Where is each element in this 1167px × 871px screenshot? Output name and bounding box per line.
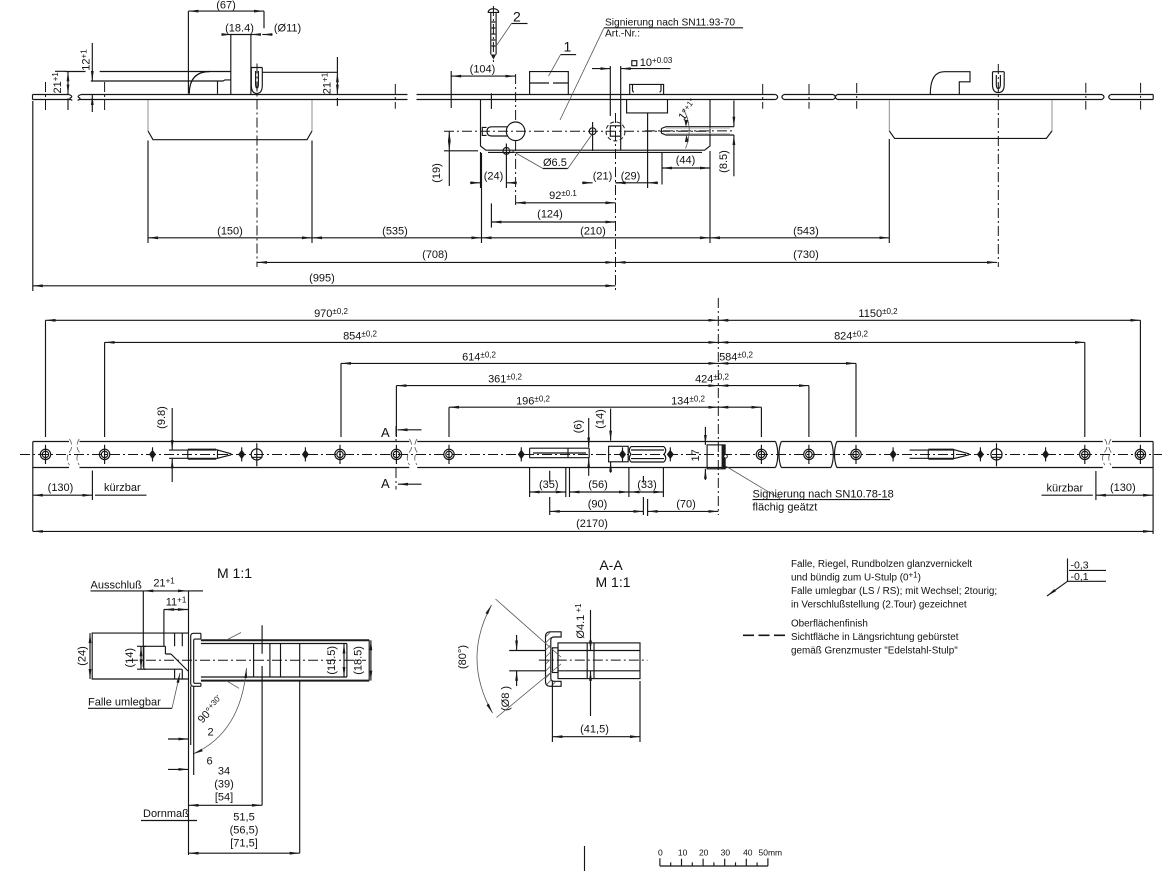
latch slot lines — [144, 646, 182, 669]
latch front view (right) body — [928, 450, 953, 459]
svg-text:(130): (130) — [1110, 482, 1136, 494]
round bolt front (left, circle with cross) — [251, 449, 262, 460]
dimension (8.5) — [733, 101, 735, 127]
round bolt pin (top view right) — [993, 72, 1005, 93]
svg-text:(14): (14) — [124, 648, 136, 668]
svg-text:(18.4): (18.4) — [225, 23, 254, 35]
dimension (90) — [550, 510, 644, 512]
dimension (41.5) — [552, 736, 640, 738]
svg-text:-0,1: -0,1 — [1071, 571, 1089, 583]
svg-text:Art.-Nr.:: Art.-Nr.: — [605, 29, 640, 40]
dimension (104) — [451, 75, 515, 77]
dimension (6) — [588, 418, 590, 447]
dimension 6 — [168, 768, 189, 770]
keep plate — [609, 446, 629, 462]
svg-text:kürzbar: kürzbar — [1047, 483, 1084, 495]
svg-text:824±0,2: 824±0,2 — [834, 330, 868, 343]
leader Signierung SN10.78 — [726, 466, 781, 499]
dimension (24) — [89, 633, 91, 679]
left keep housing (top view) — [148, 100, 312, 131]
svg-text:Falle umlegbar (LS / RS); mit: Falle umlegbar (LS / RS); mit Wechsel; 2… — [791, 586, 997, 597]
dimension (24) — [470, 182, 481, 184]
dimension (130) left — [33, 494, 93, 496]
svg-text:[71,5]: [71,5] — [230, 838, 258, 850]
svg-text:(15.5): (15.5) — [326, 646, 338, 675]
svg-text:(80°): (80°) — [457, 645, 469, 669]
svg-text:92±0.1: 92±0.1 — [549, 189, 577, 202]
svg-text:Falle umlegbar: Falle umlegbar — [88, 697, 161, 709]
svg-text:(543): (543) — [793, 225, 819, 237]
svg-text:196±0,2: 196±0,2 — [516, 394, 550, 407]
svg-text:(6): (6) — [573, 420, 585, 433]
svg-text:Sichtfläche in Längsrichtung g: Sichtfläche in Längsrichtung gebürstet — [791, 632, 959, 643]
latch guide verticals — [175, 633, 183, 679]
screw item 2 — [488, 9, 499, 55]
latch front view (left) tail — [169, 450, 188, 458]
right pin centerline, extends to (730) dim — [997, 64, 999, 267]
round bolt front (right, circle with cross) — [991, 449, 1002, 460]
dimension (2170) — [33, 530, 1153, 532]
svg-text:(35): (35) — [539, 479, 559, 491]
follower circle (dashed) — [606, 122, 625, 141]
svg-text:(995): (995) — [309, 272, 335, 284]
dimension 92+-0.1 — [516, 202, 616, 204]
svg-text:(124): (124) — [537, 209, 563, 221]
rivet bolts (filled diamonds) — [149, 447, 1049, 461]
svg-text:(67): (67) — [216, 0, 236, 12]
dimension (995) — [33, 285, 616, 287]
svg-text:21+1: 21+1 — [153, 577, 175, 590]
svg-text:(730): (730) — [793, 249, 819, 261]
svg-text:Dornmaß: Dornmaß — [143, 808, 189, 820]
dimension (14) — [610, 409, 612, 441]
svg-text:21+1: 21+1 — [51, 72, 64, 94]
svg-text:Ausschluß: Ausschluß — [91, 580, 143, 592]
bar top line right of pin — [262, 71, 337, 73]
svg-text:A: A — [381, 425, 390, 440]
dimension (9.8) — [171, 408, 173, 450]
surface finish symbol — [1068, 559, 1107, 582]
ladder extension lines to holes — [46, 320, 1141, 437]
bolt shaft lines Ø8 — [558, 651, 640, 671]
dimension (18.4) — [222, 34, 232, 36]
dimension (56) — [570, 491, 629, 493]
dimension (67) — [188, 10, 264, 12]
round bolt pin inner slot (plan left) — [256, 71, 259, 88]
dimension 614 — [341, 362, 718, 364]
svg-text:(Ø11): (Ø11) — [274, 23, 301, 35]
svg-text:(24): (24) — [484, 171, 504, 183]
svg-text:(44): (44) — [676, 155, 696, 167]
svg-text:(33): (33) — [637, 479, 657, 491]
svg-text:90°+30': 90°+30' — [195, 693, 226, 726]
corner marks — [227, 633, 242, 689]
dimension (44) — [662, 167, 710, 169]
screw holes (front view, double ring) — [40, 445, 1145, 464]
dimension (730) — [616, 261, 998, 263]
dimension (14) — [140, 646, 142, 669]
drive rod connector plates — [530, 448, 590, 458]
svg-text:(150): (150) — [217, 225, 243, 237]
striker component (dark right edge) — [707, 445, 725, 469]
dimension 21+1 (right) — [336, 72, 338, 94]
svg-text:30: 30 — [721, 848, 731, 858]
cylinder case edge view — [201, 640, 369, 680]
svg-text:(39): (39) — [214, 779, 234, 791]
svg-text:10: 10 — [678, 848, 688, 858]
dimension (150) — [148, 237, 312, 239]
kuerzbar break squiggles (top view) — [69, 95, 80, 101]
svg-text:(70): (70) — [676, 499, 696, 511]
svg-text:51,5: 51,5 — [233, 812, 254, 824]
dimension 1150 — [718, 319, 1140, 321]
svg-text:(21): (21) — [593, 171, 613, 183]
svg-text:584±0,2: 584±0,2 — [719, 351, 753, 364]
svg-text:(14): (14) — [595, 409, 607, 429]
chain dim extension lines row1 — [148, 139, 889, 243]
keyhole bulb — [506, 122, 525, 141]
svg-text:(41,5): (41,5) — [580, 724, 609, 736]
U-Stulp section bracket — [546, 632, 562, 687]
hole centerline ticks on strip (top view) — [46, 82, 1141, 110]
dimension (124) — [491, 221, 615, 223]
svg-text:[54]: [54] — [215, 792, 233, 804]
section mark A-A — [395, 426, 397, 490]
pin centerline (plan left), extends to (708) dim — [256, 64, 258, 268]
round bolt pin Ø11 (plan left) — [251, 68, 262, 94]
svg-text:2: 2 — [513, 9, 521, 25]
svg-text:(56,5): (56,5) — [230, 825, 259, 837]
latch front view (left) body — [188, 450, 216, 459]
dimension 21+1 (Ausschluss) — [143, 590, 188, 592]
centerline detail — [128, 659, 366, 661]
latch bevel arc (plan left) — [189, 72, 210, 94]
svg-text:A-A: A-A — [599, 557, 623, 573]
svg-text:40: 40 — [743, 848, 753, 858]
keyhole centerline vertical — [515, 74, 517, 208]
dimension 424 — [718, 385, 809, 387]
svg-text:Falle, Riegel, Rundbolzen glan: Falle, Riegel, Rundbolzen glanzvernickel… — [791, 559, 972, 570]
dimension (535) — [312, 237, 482, 239]
lock case bottom second line — [488, 151, 702, 153]
case centerline horizontal — [444, 130, 707, 132]
break caps (top view) — [776, 95, 1111, 100]
latch lever plan view (left) bottom edge — [91, 80, 231, 81]
svg-text:Ø4.1 +1: Ø4.1 +1 — [574, 603, 587, 639]
svg-text:in Verschlußstellung (2.Tour): in Verschlußstellung (2.Tour) gezeichnet — [791, 600, 967, 611]
dimension (210) — [482, 237, 711, 239]
faceplate strip (top view) bottom line — [33, 99, 1154, 101]
80 degree arc — [477, 605, 493, 713]
break cut marks at section (front view) — [407, 439, 417, 465]
latch drop edge (plan left) — [217, 81, 219, 94]
dimension (130) right — [1096, 494, 1153, 496]
svg-text:34: 34 — [218, 766, 230, 778]
svg-text:21+1: 21+1 — [321, 72, 334, 94]
dimension 134 — [718, 406, 761, 408]
datum centerline (front view ladder) — [717, 298, 719, 515]
scale ruler — [660, 865, 768, 867]
cover block item 1 on strip — [530, 72, 569, 95]
svg-text:(90): (90) — [588, 499, 608, 511]
kuerzbar cut marks (front right) — [1103, 439, 1111, 465]
dimension (33) — [630, 491, 664, 493]
svg-text:(2170): (2170) — [576, 518, 608, 530]
faceplate strip end edges — [33, 95, 1154, 100]
brushed-surface dash mark — [743, 634, 785, 636]
svg-text:20: 20 — [699, 848, 709, 858]
svg-text:1150±0,2: 1150±0,2 — [858, 307, 898, 320]
svg-text:854±0,2: 854±0,2 — [343, 330, 377, 343]
dimension 2 — [168, 738, 189, 740]
dimension 17 — [704, 427, 706, 445]
dimension (70) — [648, 510, 719, 512]
dimension 196 — [449, 406, 718, 408]
latch front view (right) tail — [910, 450, 929, 458]
bracket hatching — [546, 632, 557, 686]
svg-text:(708): (708) — [422, 249, 448, 261]
svg-text:A: A — [381, 476, 390, 491]
svg-text:(8.5): (8.5) — [718, 150, 730, 173]
rivet hole Ø4.1 — [587, 644, 594, 679]
svg-text:424±0,2: 424±0,2 — [695, 373, 729, 386]
extension lines below strip — [530, 467, 664, 516]
break caps (front view) — [776, 442, 837, 468]
dimension (18.5) — [370, 640, 372, 680]
lock case body (top view) — [481, 100, 711, 150]
svg-text:(Ø8 ): (Ø8 ) — [500, 686, 512, 711]
svg-text:(535): (535) — [382, 225, 408, 237]
svg-text:0: 0 — [658, 848, 663, 858]
svg-text:Signierung nach SN10.78-18: Signierung nach SN10.78-18 — [753, 489, 894, 501]
dimension 584 — [718, 362, 856, 364]
svg-text:(210): (210) — [580, 225, 606, 237]
dimension 11+1 — [164, 609, 188, 611]
svg-text:kürzbar: kürzbar — [104, 482, 141, 494]
dimension 824 — [718, 341, 1085, 343]
latch face plane line — [188, 591, 190, 855]
svg-text:17: 17 — [690, 449, 702, 461]
keyhole stem — [487, 127, 508, 136]
latch bevel — [171, 654, 188, 671]
faceplate strip (top view) top line — [33, 94, 1154, 96]
dimension 970 — [46, 319, 719, 321]
latch lever plan view (left) top edge — [65, 71, 231, 73]
spindle axis — [261, 625, 263, 805]
svg-text:11+1: 11+1 — [166, 596, 187, 609]
dimension 51.5 (56.5) [71.5] — [189, 852, 300, 854]
svg-text:Signierung nach SN11.93-70: Signierung nach SN11.93-70 — [605, 18, 735, 29]
svg-text:(130): (130) — [48, 482, 74, 494]
follower centerline vertical (datum) — [615, 113, 617, 290]
svg-text:flächig geätzt: flächig geätzt — [753, 502, 818, 514]
kuerzbar cut marks (front left) — [67, 439, 79, 465]
cylinder axis extension — [299, 681, 301, 854]
follower square hole 10mm — [610, 126, 620, 136]
dimension (21) — [582, 182, 593, 184]
svg-text:(19): (19) — [431, 163, 443, 183]
U-Stulp cross-section — [191, 633, 201, 686]
dimension 34 (39) [54] — [189, 804, 263, 806]
svg-text:12+1: 12+1 — [80, 49, 93, 71]
svg-text:6: 6 — [207, 756, 213, 768]
dimension 12+1 — [91, 43, 93, 81]
svg-text:M 1:1: M 1:1 — [217, 565, 252, 581]
svg-text:Ø6.5: Ø6.5 — [543, 157, 567, 169]
dimension 854 — [105, 341, 719, 343]
fold mark — [584, 846, 586, 871]
svg-text:361±0,2: 361±0,2 — [488, 373, 522, 386]
svg-text:970±0,2: 970±0,2 — [314, 307, 348, 320]
svg-text:(18.5): (18.5) — [353, 646, 365, 675]
right guide plate below strip — [627, 100, 668, 113]
angular note 1 degree — [683, 109, 689, 149]
svg-text:50mm: 50mm — [759, 848, 783, 858]
rotation arc 90 degrees — [193, 668, 247, 754]
svg-text:und bündig zum U-Stulp (0+1): und bündig zum U-Stulp (0+1) — [791, 571, 921, 584]
svg-text:Oberflächenfinish: Oberflächenfinish — [791, 619, 868, 630]
fixing hole at case bottom — [503, 148, 510, 155]
hole tick at 491.4 — [490, 93, 492, 109]
svg-text:(9.8): (9.8) — [156, 406, 168, 429]
bolt Riegel (top view) — [661, 127, 734, 135]
pin inner slot (right) — [996, 75, 1000, 89]
latch hook (top view right) — [930, 72, 970, 94]
dimension 21+1 (left) — [67, 71, 69, 94]
dimension (29) — [616, 182, 648, 184]
svg-text:1: 1 — [564, 39, 572, 55]
dimension (708) — [257, 261, 616, 263]
latch head block (plan left) — [231, 35, 251, 95]
round bolt cylinder (section) — [558, 643, 640, 679]
svg-text:(56): (56) — [588, 479, 608, 491]
bolt centerline — [539, 659, 648, 661]
right guide block above strip — [630, 84, 664, 94]
dimension (19) — [448, 131, 450, 151]
svg-text:10+0.03: 10+0.03 — [640, 56, 673, 69]
dimension Ø4.1+1 — [590, 610, 592, 650]
svg-text:(24): (24) — [77, 646, 89, 666]
lock case cross-section outline — [92, 633, 188, 679]
spindle and cylinder hole lines — [254, 644, 300, 678]
drive rod with break (right of keep) — [631, 447, 664, 462]
svg-text:134±0,2: 134±0,2 — [671, 394, 705, 407]
dimension (15.5) — [343, 644, 345, 678]
dimension (Ø11) — [262, 34, 272, 36]
svg-text:(29): (29) — [621, 171, 641, 183]
svg-text:614±0,2: 614±0,2 — [462, 351, 496, 364]
dimension (35) — [530, 491, 566, 493]
dimension (Ø8) — [509, 651, 545, 671]
dimension 361 — [396, 385, 718, 387]
svg-text:1°+1°: 1°+1° — [676, 97, 700, 123]
bolt head plate — [553, 648, 559, 673]
dimension 10+0.03 — [592, 68, 610, 70]
svg-text:2: 2 — [208, 727, 214, 739]
80 degree cone lines — [496, 599, 562, 718]
svg-text:-0,3: -0,3 — [1071, 560, 1089, 572]
svg-text:M 1:1: M 1:1 — [595, 574, 630, 590]
right lock housing (top view) — [889, 100, 1052, 131]
keyhole tab — [482, 127, 486, 135]
hole Ø6.5 in case — [589, 128, 596, 135]
dimension (543) — [710, 237, 889, 239]
svg-text:gemäß Grenzmuster "Edelstahl-S: gemäß Grenzmuster "Edelstahl-Stulp" — [791, 646, 958, 657]
faceplate strip (front view) outline — [33, 441, 1153, 443]
main horizontal centerline (front view) — [20, 454, 1162, 456]
svg-text:(104): (104) — [470, 64, 496, 76]
